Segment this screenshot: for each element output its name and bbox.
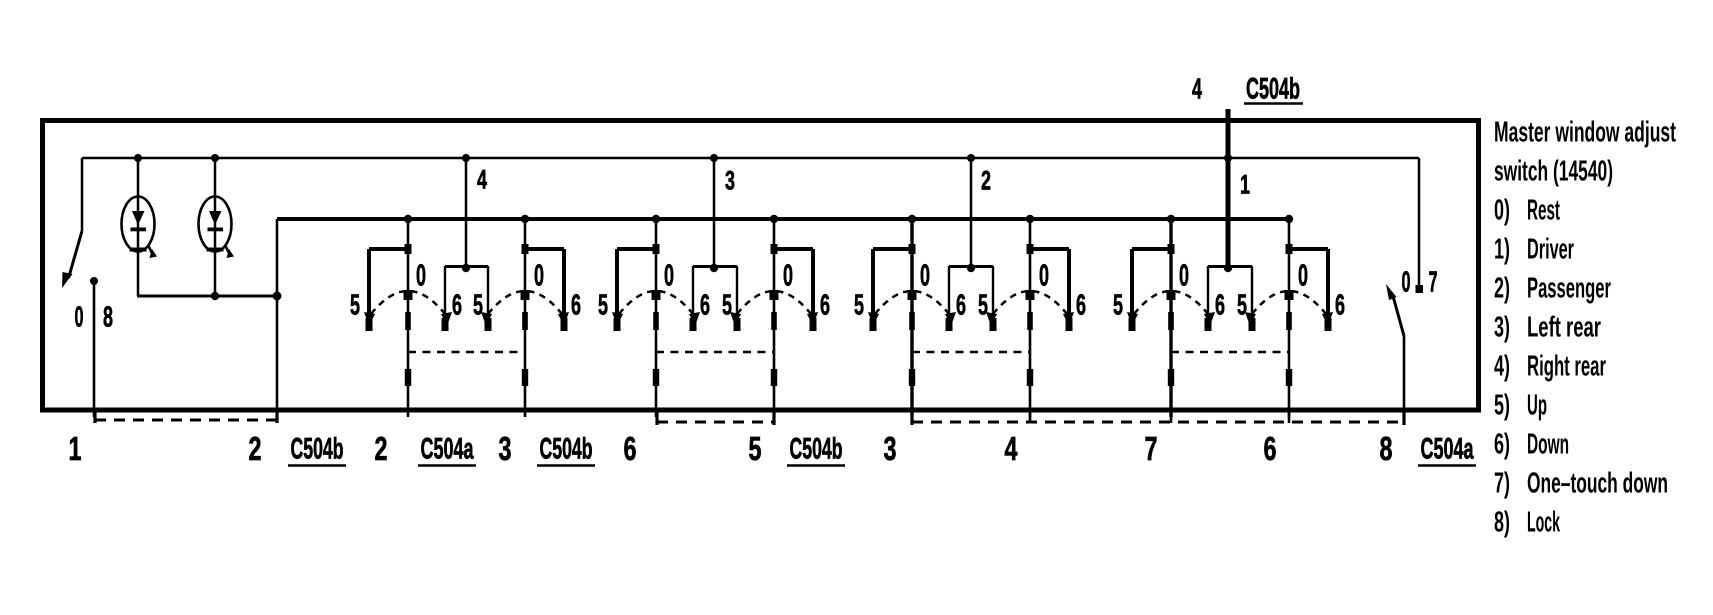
svg-text:2: 2 [249,431,262,468]
svg-text:4: 4 [1005,431,1018,468]
svg-text:5: 5 [749,431,762,468]
svg-text:7: 7 [1429,266,1438,298]
svg-text:3: 3 [725,166,735,196]
svg-text:4: 4 [1192,73,1202,105]
svg-text:3: 3 [499,431,512,468]
svg-text:5: 5 [1237,289,1247,321]
svg-text:8): 8) [1494,506,1510,538]
svg-text:0: 0 [534,258,544,293]
svg-text:0: 0 [416,258,426,293]
svg-text:6: 6 [820,289,830,321]
svg-text:5: 5 [350,289,360,321]
svg-text:0: 0 [75,301,84,333]
svg-text:Right rear: Right rear [1527,350,1606,382]
svg-text:switch (14540): switch (14540) [1494,155,1613,187]
svg-text:6): 6) [1494,428,1510,460]
svg-text:2: 2 [981,166,991,196]
svg-text:0): 0) [1494,194,1510,226]
svg-text:0: 0 [920,258,930,293]
svg-text:C504b: C504b [540,433,593,466]
svg-text:C504b: C504b [291,433,344,466]
svg-text:One–touch down: One–touch down [1527,467,1668,499]
svg-text:5: 5 [854,289,864,321]
svg-text:8: 8 [103,301,113,333]
svg-text:0: 0 [1298,258,1308,293]
svg-text:6: 6 [1335,289,1345,321]
svg-text:Master window adjust: Master window adjust [1494,116,1676,148]
svg-text:Lock: Lock [1527,506,1560,538]
svg-text:7: 7 [1145,431,1158,468]
svg-text:6: 6 [1076,289,1086,321]
svg-text:C504b: C504b [1246,73,1300,106]
svg-text:5: 5 [722,289,732,321]
svg-text:2): 2) [1494,272,1510,304]
svg-text:1): 1) [1494,233,1510,265]
svg-text:6: 6 [1215,289,1225,321]
svg-text:0: 0 [664,258,674,293]
svg-text:1: 1 [69,431,82,468]
svg-text:Left rear: Left rear [1527,311,1601,343]
svg-text:6: 6 [700,289,710,321]
svg-text:5: 5 [978,289,988,321]
svg-text:0: 0 [1402,266,1411,298]
svg-text:3): 3) [1494,311,1510,343]
svg-text:C504b: C504b [790,433,843,466]
svg-text:Rest: Rest [1527,194,1560,226]
svg-text:Up: Up [1527,389,1547,421]
svg-text:Driver: Driver [1527,233,1574,265]
svg-text:Passenger: Passenger [1527,272,1611,304]
svg-text:6: 6 [571,289,581,321]
svg-text:5: 5 [473,289,483,321]
svg-text:1: 1 [1240,170,1250,200]
svg-text:2: 2 [375,431,388,468]
svg-text:7): 7) [1494,467,1510,499]
svg-text:Down: Down [1527,428,1569,460]
svg-text:0: 0 [783,258,793,293]
svg-text:3: 3 [884,431,897,468]
svg-text:6: 6 [624,431,637,468]
svg-text:8: 8 [1380,431,1393,468]
svg-text:6: 6 [452,289,462,321]
svg-text:C504a: C504a [1421,433,1474,466]
svg-text:0: 0 [1039,258,1049,293]
svg-text:5: 5 [1113,289,1123,321]
svg-text:4: 4 [477,165,487,195]
svg-text:6: 6 [956,289,966,321]
svg-text:4): 4) [1494,350,1510,382]
svg-text:C504a: C504a [421,433,474,466]
svg-text:6: 6 [1264,431,1277,468]
svg-text:5): 5) [1494,389,1510,421]
svg-text:5: 5 [598,289,608,321]
svg-text:0: 0 [1179,258,1189,293]
